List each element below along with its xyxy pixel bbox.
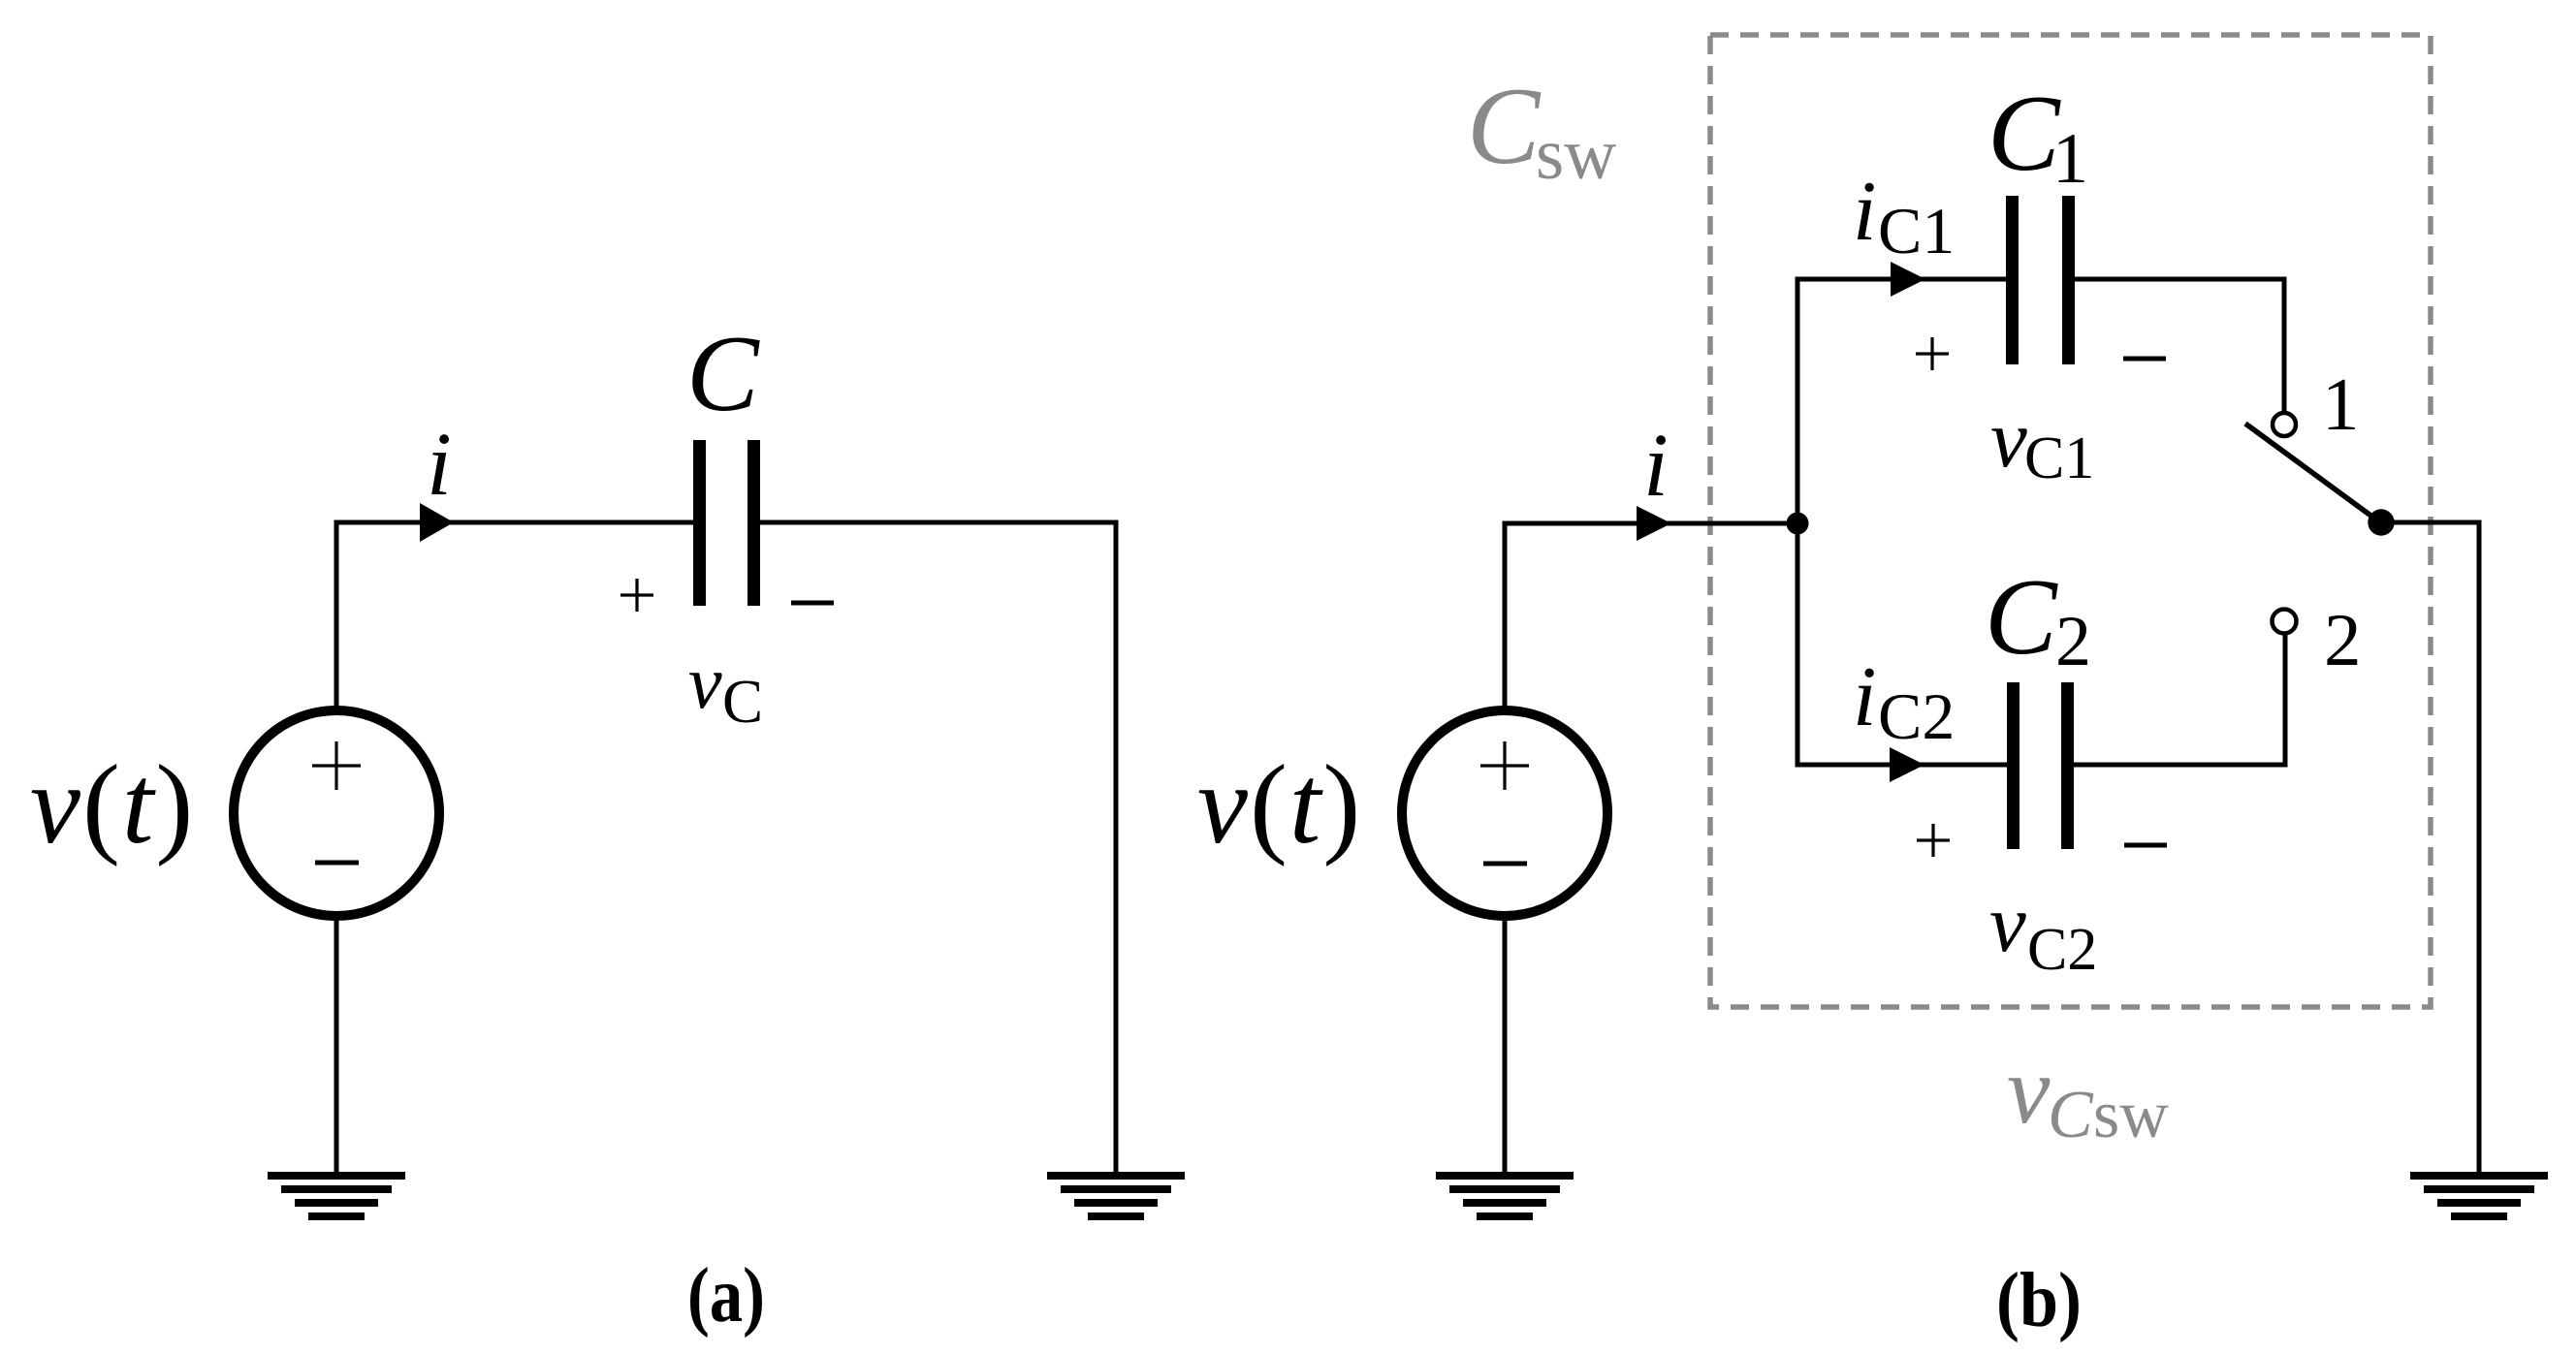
branch C2 horizontal wire right bbox=[2073, 763, 2288, 768]
minus sign of vC2 bbox=[2124, 843, 2167, 848]
svg-text:i: i bbox=[427, 415, 452, 515]
capacitor C1 right plate bbox=[2062, 196, 2075, 364]
svg-text:C: C bbox=[1988, 74, 2061, 194]
svg-text:C: C bbox=[1467, 66, 1542, 187]
branch C1 horizontal wire right bbox=[2074, 277, 2287, 282]
current arrow i (a) bbox=[420, 503, 454, 542]
svg-text:(b): (b) bbox=[1996, 1258, 2082, 1343]
node dot (b) bbox=[1787, 513, 1809, 535]
switch contact 1 circle bbox=[2273, 413, 2296, 436]
svg-text:1: 1 bbox=[2322, 362, 2360, 446]
plus sign of vC2 bbox=[1917, 824, 1950, 857]
svg-text:1: 1 bbox=[2052, 119, 2088, 199]
voltage source v(t) circle (b) bbox=[1402, 710, 1607, 916]
svg-text:C: C bbox=[2048, 1078, 2094, 1152]
svg-text:i: i bbox=[1643, 416, 1669, 516]
main wire horizontal (b) bbox=[1503, 521, 1798, 526]
wire right vertical (a) bbox=[1114, 522, 1119, 1174]
minus sign inside source (b) bbox=[1483, 862, 1527, 866]
svg-text:C1: C1 bbox=[1878, 194, 1955, 268]
ground symbol (b) source bbox=[1436, 1176, 1574, 1216]
voltage source v(t) circle (a) bbox=[234, 710, 439, 916]
svg-text:(a): (a) bbox=[687, 1253, 765, 1338]
svg-text:2: 2 bbox=[2324, 598, 2362, 681]
minus sign of vC1 bbox=[2123, 357, 2166, 362]
branch C1 vertical wire bbox=[1796, 277, 1800, 524]
switch pole dot bbox=[2368, 509, 2394, 535]
current arrow iC2 bbox=[1890, 747, 1924, 782]
output wire horizontal (b) bbox=[2381, 520, 2482, 525]
svg-text:C1: C1 bbox=[2024, 425, 2094, 491]
svg-text:sw: sw bbox=[1536, 114, 1616, 195]
svg-text:v: v bbox=[2007, 1036, 2051, 1144]
branch C2 vertical wire bbox=[1796, 523, 1800, 768]
switch lever bbox=[2245, 424, 2380, 522]
svg-text:C: C bbox=[1985, 557, 2058, 677]
capacitor C2 left plate bbox=[2007, 682, 2019, 849]
switch contact 2 circle bbox=[2273, 610, 2297, 634]
svg-text:C: C bbox=[686, 314, 760, 434]
plus sign of vC1 bbox=[1916, 337, 1949, 370]
svg-text:C: C bbox=[722, 668, 763, 736]
current arrow i (b) bbox=[1637, 506, 1671, 541]
svg-text:2: 2 bbox=[2055, 602, 2091, 681]
ground symbol (a) left bbox=[268, 1176, 405, 1216]
plus sign of vC (a) bbox=[620, 579, 653, 612]
branch C1 horizontal wire left bbox=[1796, 277, 2008, 282]
wire top horizontal right of C (a) bbox=[759, 520, 1119, 525]
svg-text:i: i bbox=[1853, 165, 1876, 259]
branch C2 horizontal wire left bbox=[1796, 763, 2009, 768]
wire top horizontal left of C (a) bbox=[334, 520, 695, 525]
ground symbol (a) right bbox=[1047, 1176, 1185, 1216]
current arrow iC1 bbox=[1891, 262, 1925, 297]
capacitor C (a) left plate bbox=[693, 440, 706, 606]
capacitor C2 right plate bbox=[2061, 682, 2074, 849]
output wire vertical (b) bbox=[2477, 522, 2482, 1174]
ground symbol (b) output bbox=[2410, 1176, 2548, 1216]
minus sign of vC (a) bbox=[791, 601, 834, 606]
svg-text:sw: sw bbox=[2093, 1078, 2169, 1152]
wire below source (b) bbox=[1503, 912, 1508, 1174]
svg-text:v: v bbox=[1989, 878, 2026, 969]
capacitor C (a) right plate bbox=[747, 440, 760, 606]
wire below source (a) bbox=[334, 912, 339, 1174]
svg-text:C2: C2 bbox=[1878, 679, 1955, 753]
svg-text:v: v bbox=[1990, 394, 2027, 485]
capacitor C1 left plate bbox=[2006, 196, 2019, 364]
branch C1 right vertical wire down to contact 1 bbox=[2282, 277, 2287, 412]
svg-text:C2: C2 bbox=[2027, 917, 2097, 983]
wire left vertical (a) bbox=[334, 522, 339, 714]
minus sign inside source (a) bbox=[315, 861, 359, 866]
svg-text:v(t): v(t) bbox=[1197, 742, 1362, 867]
svg-text:i: i bbox=[1853, 650, 1876, 744]
branch C2 right vertical wire up to contact 2 bbox=[2283, 635, 2288, 768]
wire above source (b) bbox=[1503, 523, 1508, 714]
svg-text:v(t): v(t) bbox=[30, 742, 195, 867]
dashed box Csw bbox=[1710, 35, 2431, 1007]
plus sign inside source (a) bbox=[312, 741, 361, 790]
plus sign inside source (b) bbox=[1480, 741, 1529, 790]
svg-text:v: v bbox=[688, 640, 722, 724]
